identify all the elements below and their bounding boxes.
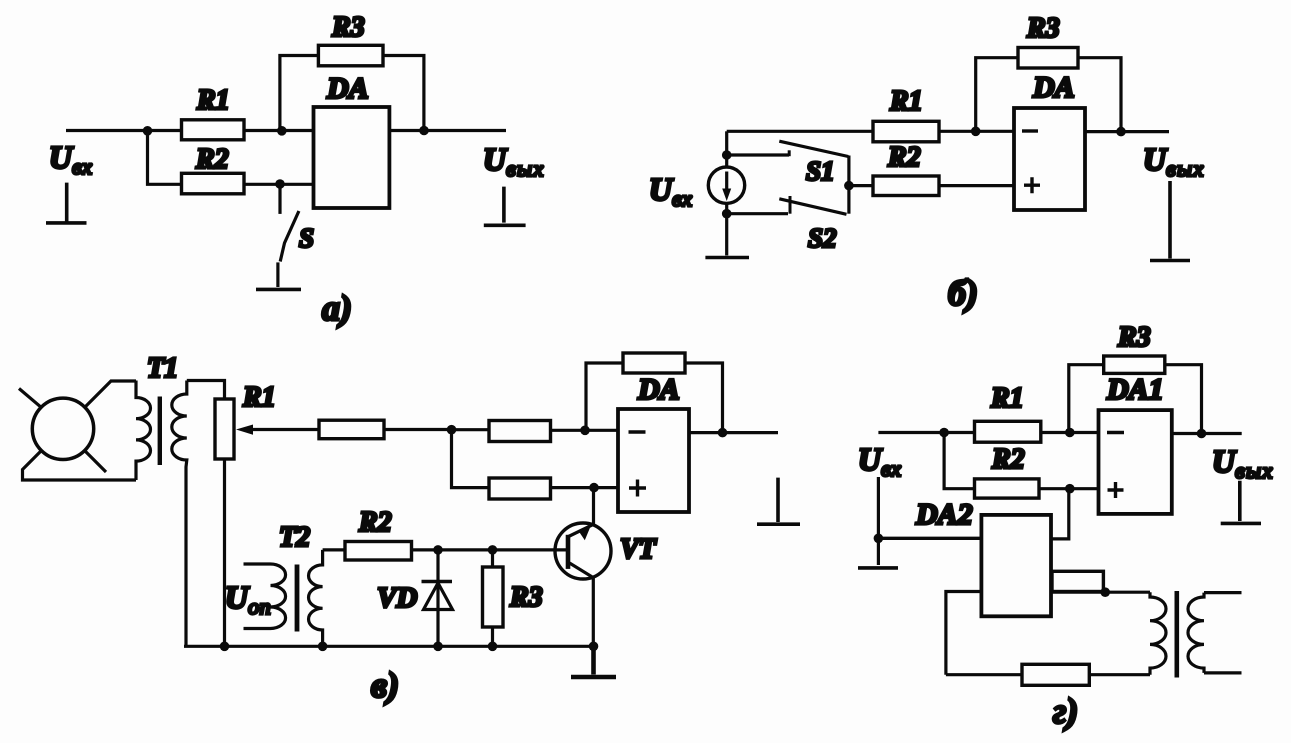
wire switch to ground xyxy=(276,262,279,287)
wire node down to R2 xyxy=(148,131,182,185)
ground at output xyxy=(1150,181,1190,261)
wire feedback riser xyxy=(586,363,623,430)
diode VD wire xyxy=(436,550,439,646)
DA1 plus sign xyxy=(1108,482,1124,498)
wire R3 top stub xyxy=(491,550,494,567)
transformer core xyxy=(1175,591,1180,678)
resistor R1 xyxy=(182,120,245,140)
op-amp DA1 xyxy=(1099,410,1172,514)
isolated common symbol xyxy=(757,478,800,525)
junction inverting node xyxy=(971,127,981,137)
wire input Uvx xyxy=(66,129,148,132)
junction rail R3 xyxy=(488,642,498,652)
wire R1 to inverting node xyxy=(244,129,282,132)
resistor R1 xyxy=(873,121,939,142)
wire base lead xyxy=(493,548,567,551)
wire DA output xyxy=(1085,130,1169,133)
diode VD cathode bar xyxy=(422,580,453,584)
wire R3 bottom stub xyxy=(491,627,494,646)
wire R3 to output node xyxy=(1078,58,1121,132)
wire noninverting node down to DA2 xyxy=(1051,489,1069,539)
junction split node xyxy=(447,425,457,435)
svg-text:T1: T1 xyxy=(147,353,178,384)
svg-text:VT: VT xyxy=(620,534,658,565)
wire node to R1 xyxy=(148,129,182,132)
wire noninverting node to DA xyxy=(280,183,314,186)
VT collector arrowhead xyxy=(578,525,591,540)
junction inverting node xyxy=(1065,428,1075,438)
transformer T1 primary winding xyxy=(136,381,151,481)
transformer T1 secondary winding xyxy=(172,381,187,647)
wire DA output xyxy=(389,129,506,132)
wire switch bus vertical xyxy=(847,156,850,214)
ground at output xyxy=(1221,481,1261,524)
svg-text:DA: DA xyxy=(637,373,680,406)
junction rail T2 xyxy=(318,642,328,652)
svg-text:T2: T2 xyxy=(279,522,310,553)
switch S1 contact tick xyxy=(788,150,791,156)
wire riser to DA2 left pin xyxy=(946,592,982,675)
transistor VT circle xyxy=(555,523,611,579)
wire R2 to noninverting node xyxy=(244,183,280,186)
DA minus sign xyxy=(629,430,646,433)
ground at source xyxy=(705,256,749,260)
machine lead top-right xyxy=(84,381,136,408)
wire inverting node to DA xyxy=(282,129,314,132)
wire R1 to inverting node xyxy=(939,130,976,133)
diode VD triangle xyxy=(424,583,453,610)
DA minus sign xyxy=(1022,129,1038,132)
svg-text:R2: R2 xyxy=(887,142,921,173)
junction output node xyxy=(419,126,429,136)
svg-text:б): б) xyxy=(948,273,978,313)
resistor R2 xyxy=(345,542,412,561)
resistor R1 vertical xyxy=(215,399,234,459)
wire feedback riser to R3 xyxy=(1069,365,1104,433)
wire R3 to output node xyxy=(383,56,424,131)
wire input node to R1 xyxy=(944,431,974,434)
modulator DA2 xyxy=(981,515,1051,616)
wire wiper to series resistor xyxy=(250,428,319,431)
junction Uvx lower node xyxy=(874,534,884,544)
wire transformer bottom to resistor xyxy=(1089,673,1150,676)
wire secondary bottom lead xyxy=(1204,671,1242,674)
wire Uvx node to DA2 input xyxy=(878,537,981,540)
switch S blade xyxy=(280,211,299,262)
series resistor inverting xyxy=(489,421,551,442)
wire source to ground xyxy=(725,203,728,255)
junction noninverting node xyxy=(589,483,599,493)
resistor R3 xyxy=(1104,356,1165,373)
junction input node xyxy=(143,126,153,136)
junction inverting node xyxy=(580,426,590,436)
wire R2 to noninverting node xyxy=(1039,487,1070,490)
svg-text:R2: R2 xyxy=(195,144,229,175)
ground at rail xyxy=(571,646,616,677)
svg-text:S1: S1 xyxy=(806,156,835,186)
wire to noninverting node xyxy=(551,486,619,489)
ground at input xyxy=(46,183,87,223)
wire S2 fixed lead xyxy=(727,212,788,215)
wire R2 from switch bus xyxy=(849,184,873,187)
wire split node to noninverting resistor xyxy=(452,430,490,488)
machine lead top-left xyxy=(19,389,42,409)
DA1 minus sign xyxy=(1107,431,1124,434)
wire secondary top lead xyxy=(1204,591,1242,594)
svg-text:DA: DA xyxy=(1032,71,1075,104)
wire R1 bottom to rail xyxy=(223,459,226,646)
wire R2 to diode node xyxy=(412,548,493,551)
svg-text:R1: R1 xyxy=(990,383,1024,414)
wire to split node xyxy=(384,428,452,431)
junction input node xyxy=(939,428,949,438)
junction output node xyxy=(1116,127,1126,137)
svg-text:R1: R1 xyxy=(242,382,276,413)
svg-text:R2: R2 xyxy=(991,444,1025,475)
machine lead bottom-right xyxy=(84,450,106,472)
svg-text:в): в) xyxy=(371,665,399,705)
wire T1 top to R1 xyxy=(187,381,225,400)
wire to inverting node xyxy=(551,429,619,432)
series resistor input xyxy=(319,420,384,439)
wire feedback to output xyxy=(685,363,723,433)
transformer T2 primary winding xyxy=(244,564,286,629)
ground at switch xyxy=(256,288,301,292)
VT emitter lead xyxy=(570,563,594,646)
svg-text:R3: R3 xyxy=(1117,322,1151,353)
junction noninverting-input node xyxy=(275,179,285,189)
resistor R3 vertical xyxy=(483,567,504,627)
op-amp DA xyxy=(618,409,689,512)
machine lead bottom-left xyxy=(23,450,137,480)
wire stub to switch S xyxy=(278,184,281,214)
wire DA1 output xyxy=(1172,432,1242,435)
wire input node down to R2 xyxy=(944,433,974,489)
junction rail VT xyxy=(589,642,599,652)
ground at Uvx xyxy=(858,566,898,570)
wire inverting node to DA1 xyxy=(1070,431,1099,434)
resistor feedback bottom xyxy=(1022,664,1089,685)
svg-text:а): а) xyxy=(322,288,352,328)
wire top rail to R1 xyxy=(727,130,873,133)
transformer T2 secondary winding xyxy=(309,550,323,646)
transformer secondary winding xyxy=(1188,593,1204,673)
svg-text:R3: R3 xyxy=(509,582,543,613)
junction switch bus to R2 xyxy=(844,181,854,191)
wire source top riser xyxy=(725,131,728,168)
transformer T1 core xyxy=(158,397,162,466)
source arrow xyxy=(725,172,728,197)
wiper arrowhead at R1 xyxy=(236,425,253,435)
svg-text:г): г) xyxy=(1053,691,1078,731)
svg-text:R1: R1 xyxy=(196,85,230,116)
VT collector lead xyxy=(569,524,594,536)
switch S1 blade xyxy=(779,141,848,156)
feedback resistor xyxy=(623,353,685,373)
svg-text:S2: S2 xyxy=(808,223,837,253)
resistor at DA2 output xyxy=(1052,571,1103,591)
svg-text:DA2: DA2 xyxy=(915,498,973,531)
series resistor noninverting xyxy=(489,478,551,499)
resistor R2 xyxy=(182,173,245,194)
wire DA2 output to transformer xyxy=(1051,591,1150,594)
svg-text:VD: VD xyxy=(377,582,417,614)
wire T2 to R2 xyxy=(323,548,345,551)
junction output node xyxy=(1197,429,1207,439)
svg-text:R3: R3 xyxy=(1026,13,1060,44)
svg-text:R1: R1 xyxy=(889,86,923,117)
ground at output xyxy=(484,187,526,226)
wire bottom resistor to riser xyxy=(946,673,1022,676)
source Uvx circle xyxy=(708,167,744,203)
junction diode node xyxy=(433,545,443,555)
wire R1 to inverting node xyxy=(1041,431,1070,434)
wire noninverting node to DA1 xyxy=(1070,487,1099,490)
wire split node to inverting resistor xyxy=(452,428,490,431)
wire feedback riser to R3 xyxy=(280,56,319,131)
resistor R2 xyxy=(873,176,939,196)
junction rail VD xyxy=(433,642,443,652)
junction output node xyxy=(718,428,728,438)
transformer primary winding xyxy=(1150,592,1166,675)
VT base bar xyxy=(566,535,571,569)
bottom rail xyxy=(184,645,594,648)
junction S1 tap xyxy=(722,150,732,160)
transformer T2 core xyxy=(295,565,300,632)
source arrowhead xyxy=(722,189,731,202)
junction noninverting node xyxy=(1065,484,1075,494)
op-amp DA xyxy=(314,107,390,208)
DA plus sign xyxy=(1024,177,1040,193)
switch S2 contact tick xyxy=(789,196,792,214)
wire S1 fixed lead xyxy=(727,153,789,156)
op-amp DA xyxy=(1014,108,1085,210)
DA plus sign xyxy=(629,480,646,497)
wire feedback riser to R3 xyxy=(976,58,1018,132)
svg-text:R2: R2 xyxy=(358,507,392,538)
junction DA2 output node xyxy=(1100,587,1110,597)
machine/generator circle xyxy=(32,398,93,459)
resistor R1 xyxy=(975,421,1041,442)
svg-text:R3: R3 xyxy=(331,12,365,43)
wire noninverting node to VT collector xyxy=(592,488,595,525)
wire DA output xyxy=(689,431,778,434)
svg-text:DA1: DA1 xyxy=(1106,373,1164,406)
resistor R3 xyxy=(318,45,383,66)
junction S2 tap xyxy=(722,209,732,219)
wire R2 to DA noninverting xyxy=(939,184,1014,187)
switch S2 blade xyxy=(779,199,846,215)
junction inverting-input node xyxy=(277,126,287,136)
resistor R3 xyxy=(1018,48,1078,69)
svg-text:S: S xyxy=(299,223,314,253)
resistor R2 xyxy=(975,479,1040,498)
svg-text:DA: DA xyxy=(326,72,369,105)
junction base resistor node xyxy=(488,545,498,555)
wire Uvx lower branch xyxy=(877,477,880,565)
wire input xyxy=(878,431,944,434)
wire R3 to output node xyxy=(1165,365,1202,434)
wire inverting node to DA xyxy=(976,130,1014,133)
junction rail R1 xyxy=(220,642,230,652)
